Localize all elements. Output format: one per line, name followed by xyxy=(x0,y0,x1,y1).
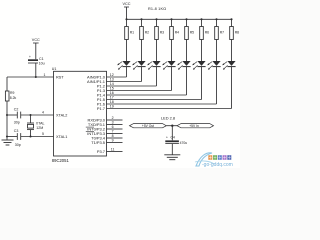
node C2/gnd junction xyxy=(6,114,8,116)
wire R6 to LED6 xyxy=(201,40,203,62)
wire VCC to C1 xyxy=(35,43,37,59)
node +5V junction xyxy=(171,125,173,127)
resistor R5 xyxy=(185,27,189,40)
wire P3 stub xyxy=(107,124,123,126)
node rail junction 2 xyxy=(140,18,142,20)
ground (C4) xyxy=(164,154,180,156)
svg-text:30p: 30p xyxy=(15,143,21,147)
wire LED6 to P1.5 xyxy=(201,67,203,100)
wire VCC rail xyxy=(127,18,232,20)
net flag +5V Out xyxy=(130,124,167,128)
svg-text:-go-gddq.com: -go-gddq.com xyxy=(202,162,233,168)
svg-text:C2: C2 xyxy=(14,107,19,111)
svg-text:R1-8 1KΩ: R1-8 1KΩ xyxy=(148,7,166,11)
svg-text:C1: C1 xyxy=(39,57,44,61)
wire node to C4 xyxy=(171,126,173,141)
wire R1 to LED1 xyxy=(126,40,128,62)
wire flag to node xyxy=(166,125,177,127)
LED D4 xyxy=(167,61,175,66)
net flag +5V In xyxy=(177,124,214,128)
svg-text:18: 18 xyxy=(110,100,114,104)
wire rail to R2 xyxy=(141,19,143,26)
resistor R4 xyxy=(170,27,174,40)
svg-text:12: 12 xyxy=(110,73,114,77)
node rail junction 4 xyxy=(170,18,172,20)
wire LED5 to P1.4 xyxy=(186,67,188,95)
svg-text:VCC: VCC xyxy=(32,38,40,42)
wire rail to R3 xyxy=(156,19,158,26)
wire VCC stub xyxy=(126,7,128,19)
wire rail to R1 xyxy=(126,19,128,26)
svg-text:VCC: VCC xyxy=(122,2,130,6)
wire rail to R8 xyxy=(231,19,233,26)
node rail junction 3 xyxy=(155,18,157,20)
wire R5 to LED5 xyxy=(186,40,188,62)
wire RST node left to R9 xyxy=(7,76,36,78)
node rail junction 8 xyxy=(230,18,232,20)
svg-text:10u: 10u xyxy=(39,62,45,66)
capacitor C3 30p xyxy=(16,133,18,140)
svg-text:9: 9 xyxy=(112,138,114,142)
svg-text:R6: R6 xyxy=(205,31,209,35)
svg-text:U1: U1 xyxy=(52,67,57,71)
svg-text:XTAL: XTAL xyxy=(36,122,45,126)
svg-text:R9: R9 xyxy=(10,91,14,95)
svg-text:XTAL2: XTAL2 xyxy=(56,114,67,118)
svg-text:R2: R2 xyxy=(145,31,149,35)
svg-text:+5V Out: +5V Out xyxy=(142,124,154,128)
wire rail to R4 xyxy=(171,19,173,26)
svg-text:T1/P3.5: T1/P3.5 xyxy=(91,140,106,145)
wire rail to R6 xyxy=(201,19,203,26)
node rail junction 7 xyxy=(215,18,217,20)
wire LED1 to P1.0 xyxy=(126,67,128,77)
wire R8 to LED8 xyxy=(231,40,233,62)
svg-text:R7: R7 xyxy=(220,31,224,35)
wire P3 stub xyxy=(107,137,123,139)
svg-text:C3: C3 xyxy=(14,129,19,133)
wire C4 to ground xyxy=(171,144,173,155)
wire P3 stub xyxy=(107,133,123,135)
LED D1 xyxy=(122,61,130,66)
wire R7 to LED7 xyxy=(216,40,218,62)
op IC U1 89C2051 MCU box xyxy=(54,71,107,156)
svg-text:4: 4 xyxy=(42,110,44,114)
svg-text:R4: R4 xyxy=(175,31,179,35)
wire R4 to LED4 xyxy=(171,40,173,62)
svg-text:5: 5 xyxy=(42,132,44,136)
wire P3 stub xyxy=(107,128,123,130)
wire R9 to ground rail xyxy=(6,101,8,140)
svg-text:XTAL1: XTAL1 xyxy=(56,135,67,139)
svg-text:+: + xyxy=(166,136,168,140)
resistor R9 8.2k xyxy=(5,91,9,101)
svg-text:6: 6 xyxy=(112,125,114,129)
wire LED4 to P1.3 xyxy=(171,67,173,91)
crystal XTAL 12M xyxy=(30,115,32,123)
watermark logo swoosh xyxy=(196,153,212,166)
svg-text:30p: 30p xyxy=(14,121,20,125)
LED D7 xyxy=(212,61,220,66)
svg-text:14: 14 xyxy=(110,82,114,86)
wire LED8 to P1.7 xyxy=(231,67,233,109)
svg-text:R5: R5 xyxy=(190,31,194,35)
wire rail to R7 xyxy=(216,19,218,26)
svg-text:P3.7: P3.7 xyxy=(97,149,105,154)
svg-text:+5V In: +5V In xyxy=(189,124,199,128)
wire P3 stub xyxy=(107,119,123,121)
resistor R3 xyxy=(155,27,159,40)
wire RST node to MCU RST pin 1 xyxy=(36,76,54,78)
LED D8 xyxy=(227,61,235,66)
LED D3 xyxy=(152,61,160,66)
capacitor C2 30p xyxy=(16,112,18,119)
svg-text:8.2k: 8.2k xyxy=(10,96,17,100)
resistor R8 xyxy=(230,27,234,40)
wire R2 to LED2 xyxy=(141,40,143,62)
wire LED7 to P1.6 xyxy=(216,67,218,104)
svg-text:12M: 12M xyxy=(36,126,43,130)
node rail junction 6 xyxy=(200,18,202,20)
watermark colored text xyxy=(208,155,212,160)
svg-text:470u: 470u xyxy=(180,141,188,145)
svg-text:15: 15 xyxy=(110,87,114,91)
node rail junction 1 xyxy=(125,18,127,20)
svg-text:11: 11 xyxy=(111,147,115,151)
svg-text:C4: C4 xyxy=(171,136,175,140)
svg-text:1: 1 xyxy=(44,73,46,77)
svg-text:8: 8 xyxy=(112,134,114,138)
svg-text:16: 16 xyxy=(110,91,114,95)
resistor R6 xyxy=(200,27,204,40)
svg-text:P1.7: P1.7 xyxy=(97,106,105,111)
svg-text:89C2051: 89C2051 xyxy=(52,158,70,163)
wire LED2 to P1.1 xyxy=(141,67,143,82)
node C3/gnd junction xyxy=(6,135,8,137)
wire rail to R5 xyxy=(186,19,188,26)
node rail junction 5 xyxy=(185,18,187,20)
LED D2 xyxy=(137,61,145,66)
ground (left) xyxy=(2,139,14,141)
node crystal top junction xyxy=(29,114,31,116)
svg-text:R8: R8 xyxy=(235,31,239,35)
svg-text:LED 2.8: LED 2.8 xyxy=(161,115,175,120)
svg-text:+: + xyxy=(29,55,31,59)
resistor R2 xyxy=(140,27,144,40)
resistor R1 xyxy=(125,27,129,40)
svg-text:RST: RST xyxy=(56,76,64,80)
svg-text:19: 19 xyxy=(110,105,114,109)
wire LED3 to P1.2 xyxy=(156,67,158,86)
svg-text:R3: R3 xyxy=(160,31,164,35)
svg-text:17: 17 xyxy=(110,96,114,100)
node RST junction xyxy=(35,76,37,78)
svg-text:3: 3 xyxy=(112,120,114,124)
resistor R7 xyxy=(215,27,219,40)
wire P3 stub xyxy=(107,151,123,153)
wire XTAL2 row xyxy=(7,114,17,116)
node crystal bottom junction xyxy=(29,135,31,137)
svg-text:R1: R1 xyxy=(130,31,134,35)
wire R3 to LED3 xyxy=(156,40,158,62)
capacitor C1 10u (polarized) xyxy=(28,59,38,61)
svg-text:2: 2 xyxy=(112,116,114,120)
wire C1 to RST node xyxy=(35,63,37,77)
LED D5 xyxy=(182,61,190,66)
wire P3 stub xyxy=(107,142,123,144)
svg-text:7: 7 xyxy=(112,129,114,133)
svg-text:13: 13 xyxy=(110,78,114,82)
LED D6 xyxy=(197,61,205,66)
wire XTAL1 row xyxy=(7,136,17,138)
